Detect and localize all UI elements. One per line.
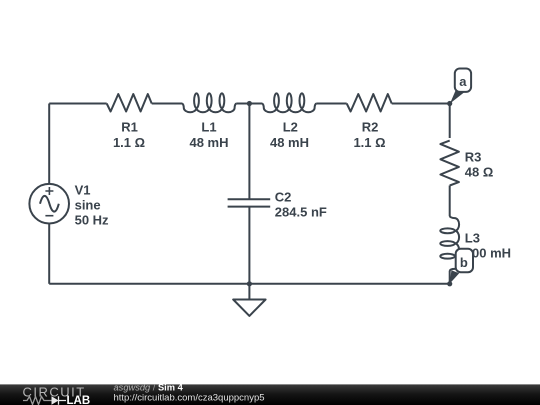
svg-text:b: b	[460, 255, 468, 270]
wire bottom horizontal	[49, 283, 450, 285]
svg-text:sine: sine	[75, 198, 101, 213]
wire L2 to R2	[316, 103, 346, 105]
wire R3 to L3	[449, 186, 451, 217]
inductor L3	[440, 216, 459, 271]
svg-text:R2: R2	[362, 119, 379, 134]
svg-text:C2: C2	[275, 189, 292, 204]
resistor R3	[440, 141, 459, 186]
wire corner down to R3	[449, 104, 451, 139]
wire capacitor bottom stub	[248, 207, 250, 284]
wire R2 to node a corner	[392, 103, 450, 105]
inductor L2	[262, 93, 316, 112]
svg-text:1.1 Ω: 1.1 Ω	[353, 135, 385, 150]
svg-text:V1: V1	[75, 183, 91, 198]
junction dot ground node	[247, 281, 252, 286]
svg-text:R3: R3	[465, 150, 482, 165]
junction dot node b corner	[447, 281, 452, 286]
logo diode symbol	[52, 396, 59, 404]
wire L1 to middle junction	[236, 103, 262, 105]
wire L3 to bottom-right node	[449, 271, 451, 284]
svg-text:asgwsdg / Sim 4: asgwsdg / Sim 4	[114, 382, 184, 392]
capacitor C2	[228, 199, 271, 206]
svg-text:48 mH: 48 mH	[189, 135, 228, 150]
junction dot top-middle	[247, 101, 252, 106]
svg-text:48 Ω: 48 Ω	[465, 164, 494, 179]
svg-text:LAB: LAB	[67, 395, 91, 405]
voltage source V1	[29, 184, 69, 224]
svg-text:a: a	[459, 74, 467, 89]
resistor R1	[107, 94, 152, 112]
node a pointer	[450, 89, 464, 104]
svg-text:284.5 nF: 284.5 nF	[275, 205, 327, 220]
wire capacitor top stub	[248, 104, 250, 200]
svg-text:50 Hz: 50 Hz	[75, 212, 109, 227]
logo resistor squiggle	[23, 397, 52, 405]
node b label box	[456, 249, 473, 272]
inductor L1	[182, 93, 236, 112]
svg-text:L1: L1	[201, 119, 216, 134]
wire top-left horizontal (V1 to R1)	[49, 103, 106, 105]
resistor R2	[347, 94, 392, 112]
svg-text:L2: L2	[283, 119, 298, 134]
svg-text:R1: R1	[121, 119, 138, 134]
wire R1 to L1	[152, 103, 182, 105]
svg-text:1.1 Ω: 1.1 Ω	[113, 135, 145, 150]
wire top-left vertical (corner to V1 top)	[48, 104, 50, 184]
svg-text:48 mH: 48 mH	[270, 135, 309, 150]
wire V1 bottom to bottom-left corner	[48, 224, 50, 284]
svg-text:L3: L3	[465, 231, 480, 246]
junction dot node a corner	[447, 101, 452, 106]
node b pointer	[450, 270, 460, 283]
footer bar	[0, 384, 540, 405]
ground	[233, 284, 265, 316]
svg-text:http://circuitlab.com/cza3qupp: http://circuitlab.com/cza3quppcnyp5	[114, 393, 265, 404]
node a label box	[455, 69, 471, 92]
